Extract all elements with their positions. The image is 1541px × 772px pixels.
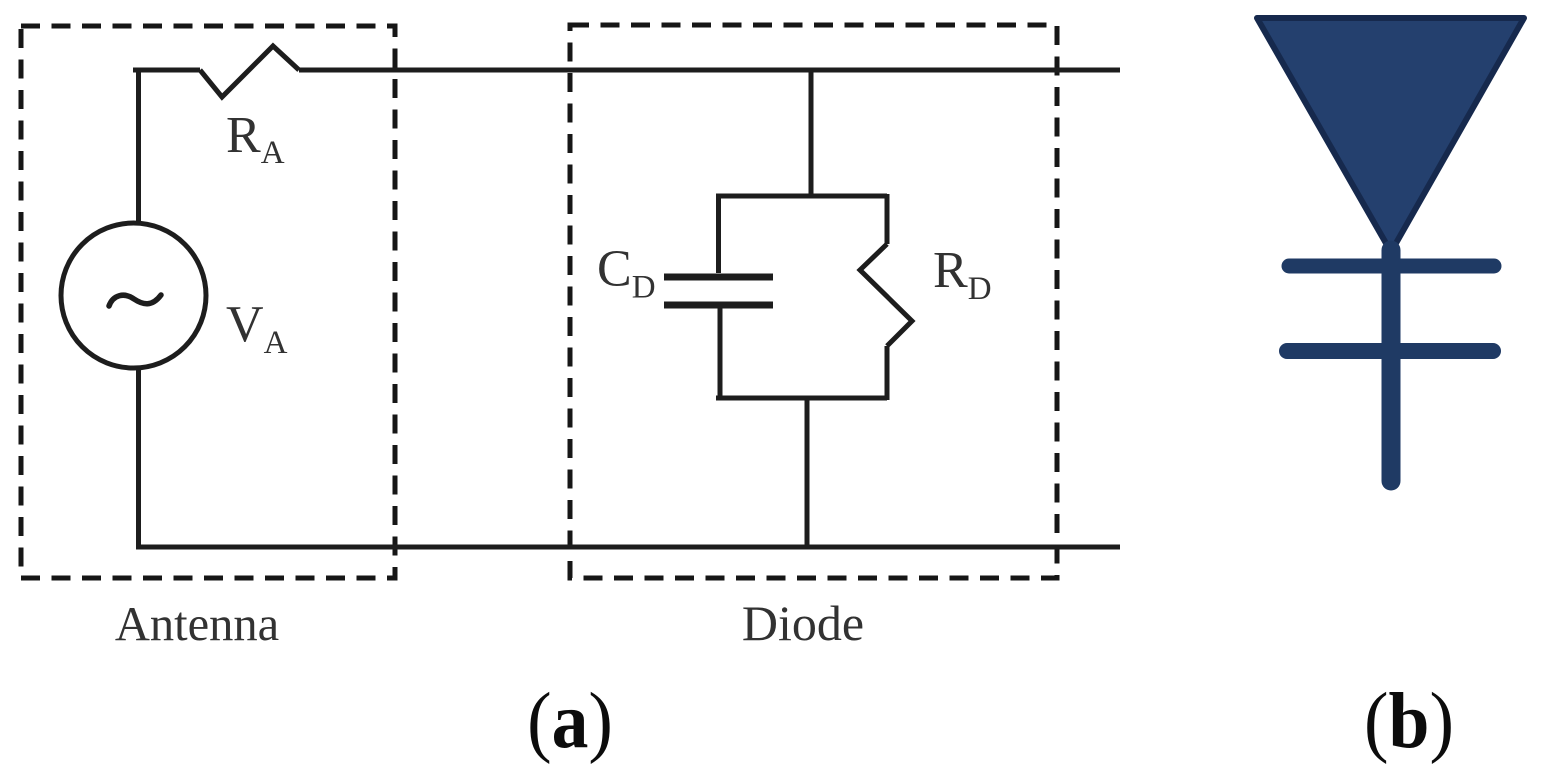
wire: resistor branch upper lead [885,194,890,244]
wire: bottom horizontal to right edge [136,545,1120,550]
wire: stub from top wire down to diode RC network [809,70,814,198]
node: RC network bottom bar [716,396,887,401]
voltage source V_A circle [61,223,206,368]
sine symbol inside source [109,295,161,306]
capacitor C_D top plate [664,274,773,281]
antenna symbol triangle [1257,18,1524,252]
antenna symbol stem [1382,250,1401,481]
wire: top horizontal to right edge [299,68,1120,73]
diode equivalent dashed box [570,25,1057,578]
svg-text:Antenna: Antenna [115,598,279,651]
antenna symbol upper bar [1289,259,1494,274]
resistor R_A (zigzag) [200,46,299,97]
node: RC network top bar [716,194,887,199]
svg-text:Diode: Diode [742,595,864,651]
antenna equivalent dashed box [21,26,395,578]
wire: stub from RC network down to bottom wire [805,398,810,547]
wire: left vertical from corner to source top [136,68,141,222]
antenna symbol lower bar [1287,343,1493,359]
wire: capacitor branch upper lead [716,194,721,273]
svg-text:(b): (b) [1364,676,1454,764]
wire: left vertical from source bottom to bottom wire [136,368,141,550]
capacitor C_D bottom plate [664,302,773,309]
wire: resistor branch lower lead [885,346,890,400]
svg-text:(a): (a) [527,676,613,764]
wire: capacitor branch lower lead [718,308,723,400]
resistor R_D (zigzag) [860,244,912,346]
wire: top-left horizontal segment [133,68,200,73]
